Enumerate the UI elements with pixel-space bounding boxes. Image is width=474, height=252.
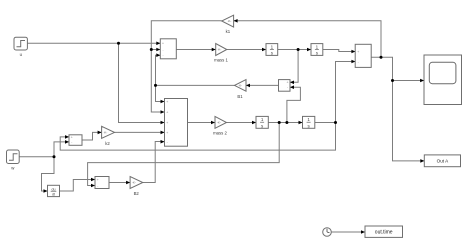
svg-text:w: w bbox=[11, 165, 15, 170]
svg-text:-K-: -K- bbox=[228, 19, 232, 23]
svg-text:-K-: -K- bbox=[217, 121, 221, 125]
svg-text:k1: k1 bbox=[226, 29, 231, 34]
svg-text:Out A: Out A bbox=[437, 158, 449, 163]
svg-text:mass 1: mass 1 bbox=[214, 58, 228, 63]
svg-text:-K-: -K- bbox=[238, 84, 242, 88]
svg-text:mass 2: mass 2 bbox=[213, 131, 227, 136]
svg-text:k2: k2 bbox=[105, 141, 110, 146]
svg-text:B2: B2 bbox=[134, 191, 140, 196]
svg-text:-K-: -K- bbox=[132, 181, 136, 185]
svg-text:dt: dt bbox=[52, 193, 55, 197]
svg-text:-K-: -K- bbox=[218, 48, 222, 52]
svg-text:B1: B1 bbox=[237, 94, 243, 99]
svg-text:du: du bbox=[52, 187, 56, 191]
svg-text:-K-: -K- bbox=[104, 131, 108, 135]
svg-text:out.time: out.time bbox=[375, 230, 393, 236]
svg-text:u: u bbox=[20, 52, 23, 57]
